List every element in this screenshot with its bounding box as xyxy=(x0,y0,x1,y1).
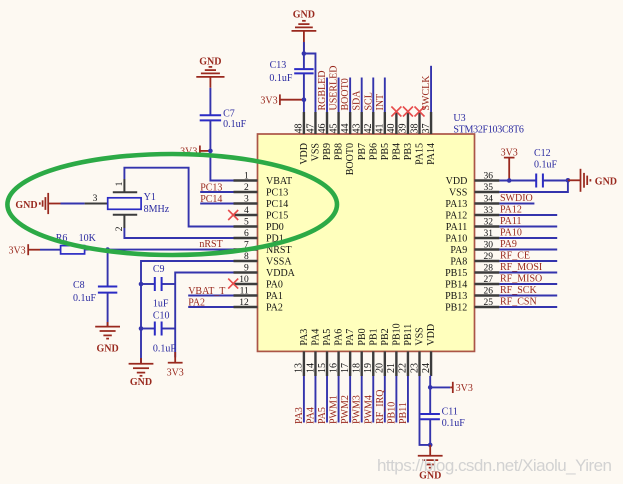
node pin24/3V3 junction xyxy=(428,385,433,390)
svg-text:3: 3 xyxy=(93,194,98,204)
svg-text:45: 45 xyxy=(328,124,339,134)
svg-text:GND: GND xyxy=(293,9,315,20)
svg-text:RF_MISO: RF_MISO xyxy=(500,274,542,285)
pin 25 PB12 (right) xyxy=(445,298,499,313)
node C10 left junction xyxy=(139,326,144,331)
svg-text:22: 22 xyxy=(398,363,409,373)
svg-text:BOOT0: BOOT0 xyxy=(345,143,356,175)
svg-text:PB13: PB13 xyxy=(445,291,467,302)
wire net PB10 (pin 21) xyxy=(395,376,397,423)
svg-text:10: 10 xyxy=(239,275,249,285)
svg-text:30: 30 xyxy=(484,241,494,251)
wire net PWM2 (pin 17) xyxy=(349,376,351,423)
wire pin 43 net SDA xyxy=(361,78,363,113)
svg-text:3V3: 3V3 xyxy=(8,245,25,256)
ground (top, VSS pin 47) xyxy=(292,9,317,53)
wire net VBAT_T (pin 11) xyxy=(188,295,233,297)
wire net SWDIO (pin 34) xyxy=(499,203,534,205)
svg-text:41: 41 xyxy=(375,124,386,134)
pin 9 VDDA (left) xyxy=(234,264,296,279)
pin 34 PA13 (right) xyxy=(445,195,499,210)
pin 41 PB5 (top) xyxy=(375,112,391,160)
wire node to pin 47 xyxy=(304,54,316,113)
wire net PA3 (pin 13) xyxy=(303,376,305,423)
svg-text:C7: C7 xyxy=(223,108,235,119)
svg-text:C9: C9 xyxy=(153,264,165,275)
svg-text:PC14: PC14 xyxy=(200,194,222,205)
wire net PA11 (pin 32) xyxy=(499,226,557,228)
wire pin 24 VDD down xyxy=(429,375,432,377)
svg-text:15: 15 xyxy=(317,363,328,373)
wire nRST node to pin 7 xyxy=(108,249,234,251)
svg-text:PWM3: PWM3 xyxy=(352,395,363,424)
pin 10 PA0 (left) xyxy=(234,275,283,290)
pin 18 PB0 (bottom) xyxy=(352,328,368,376)
wire C11 to GND node xyxy=(429,419,431,445)
svg-text:SWCLK: SWCLK xyxy=(421,75,432,111)
pin 46 PB9 (top) xyxy=(317,112,333,160)
wire net PC14 (pin 3) xyxy=(200,203,233,205)
svg-text:25: 25 xyxy=(484,298,494,308)
svg-text:39: 39 xyxy=(398,124,409,134)
svg-text:28: 28 xyxy=(484,264,494,274)
svg-text:PC14: PC14 xyxy=(266,199,288,210)
pin 38 PA15 (top) xyxy=(409,112,425,165)
svg-text:C8: C8 xyxy=(73,280,85,291)
capacitor C8 xyxy=(98,287,117,293)
no-connect X pin 4 xyxy=(228,210,238,220)
svg-text:RF_IRQ: RF_IRQ xyxy=(375,389,386,424)
svg-text:3: 3 xyxy=(244,195,249,205)
node 3V3/pin48 junction xyxy=(302,97,307,102)
wire 3V3 node to pin 48 xyxy=(303,100,305,112)
svg-text:PA9: PA9 xyxy=(500,239,517,250)
svg-text:6: 6 xyxy=(244,229,249,239)
svg-text:20: 20 xyxy=(375,363,386,373)
svg-text:PB7: PB7 xyxy=(357,143,368,160)
wire pin 42 net SCL xyxy=(372,78,374,113)
svg-text:nRST: nRST xyxy=(199,239,222,250)
wire C13 to 3V3 node xyxy=(303,73,305,99)
pin 44 BOOT0 (top) xyxy=(340,112,356,175)
pin 12 PA2 (left) xyxy=(234,298,283,313)
node VBAT junction xyxy=(208,149,213,154)
svg-text:PA2: PA2 xyxy=(188,297,205,308)
svg-text:23: 23 xyxy=(409,363,420,373)
capacitor C13 xyxy=(294,69,313,73)
svg-text:PWM1: PWM1 xyxy=(329,395,340,424)
svg-text:PA11: PA11 xyxy=(446,222,468,233)
svg-text:9: 9 xyxy=(244,264,249,274)
svg-text:PA11: PA11 xyxy=(500,216,522,227)
svg-text:PB2: PB2 xyxy=(380,328,391,345)
pin 35 VSS (right) xyxy=(449,183,499,198)
svg-text:38: 38 xyxy=(409,124,420,134)
svg-text:PD0: PD0 xyxy=(266,222,284,233)
svg-text:3V3: 3V3 xyxy=(167,368,184,379)
pin 21 PB10 (bottom) xyxy=(386,323,402,376)
svg-text:SDA: SDA xyxy=(352,90,363,111)
svg-text:C13: C13 xyxy=(270,60,287,71)
pin 7 NRST (left) xyxy=(234,241,292,256)
svg-text:PB12: PB12 xyxy=(445,302,467,313)
wire net PWM4 (pin 19) xyxy=(372,376,374,423)
svg-text:PB4: PB4 xyxy=(391,143,402,160)
svg-text:PC13: PC13 xyxy=(200,182,222,193)
svg-text:19: 19 xyxy=(363,363,374,373)
svg-text:26: 26 xyxy=(484,287,494,297)
svg-text:PA5: PA5 xyxy=(322,329,333,346)
svg-text:https://blog.csdn.net/Xiaolu_Y: https://blog.csdn.net/Xiaolu_Yiren xyxy=(377,456,612,475)
svg-text:10K: 10K xyxy=(79,233,97,244)
wire net PA12 (pin 33) xyxy=(499,214,557,216)
svg-text:4: 4 xyxy=(244,206,249,216)
svg-text:47: 47 xyxy=(305,124,316,134)
wire pin 35 VSS to node xyxy=(499,180,568,192)
power 3V3 (pin 48) xyxy=(260,94,304,106)
svg-text:VSSA: VSSA xyxy=(266,256,292,267)
svg-text:31: 31 xyxy=(484,229,494,239)
svg-text:VSS: VSS xyxy=(415,327,426,345)
wire net RF_IRQ (pin 20) xyxy=(384,376,386,423)
wire net RF_CSN (pin 25) xyxy=(499,306,557,308)
wire C7 to 3V3 node xyxy=(209,120,211,150)
svg-text:C11: C11 xyxy=(442,406,458,417)
svg-text:8: 8 xyxy=(244,252,249,262)
svg-text:40: 40 xyxy=(386,124,397,134)
capacitor C12 xyxy=(534,148,558,188)
svg-text:PWM4: PWM4 xyxy=(363,395,374,424)
pin 45 PB8 (top) xyxy=(328,112,344,160)
pin 16 PA6 (bottom) xyxy=(328,329,344,376)
ground (C8) xyxy=(95,322,120,354)
svg-text:PB1: PB1 xyxy=(368,328,379,345)
wire net PA2 (pin 12) xyxy=(188,306,233,308)
svg-text:33: 33 xyxy=(484,206,494,216)
svg-text:PB14: PB14 xyxy=(445,279,467,290)
capacitor C11 xyxy=(421,406,466,429)
svg-text:48: 48 xyxy=(294,124,305,134)
svg-text:VDDA: VDDA xyxy=(266,268,296,279)
svg-text:1: 1 xyxy=(115,181,125,186)
svg-text:3V3: 3V3 xyxy=(501,148,518,159)
svg-text:11: 11 xyxy=(240,287,249,297)
crystal Y1 8MHz xyxy=(85,179,170,231)
svg-text:24: 24 xyxy=(421,363,432,373)
pin 11 PA1 (left) xyxy=(234,287,283,302)
wire GND to crystal pin 3 xyxy=(61,203,85,205)
svg-text:PA15: PA15 xyxy=(415,143,426,165)
wire GND to node xyxy=(303,42,305,54)
svg-text:PB3: PB3 xyxy=(403,143,414,160)
pin 14 PA4 (bottom) xyxy=(305,329,321,376)
svg-text:12: 12 xyxy=(239,298,249,308)
pin 20 PB2 (bottom) xyxy=(375,328,391,376)
svg-text:44: 44 xyxy=(340,124,351,134)
pin 23 VSS (bottom) xyxy=(409,327,425,376)
ground (C9/C10) xyxy=(129,358,154,388)
svg-text:RF_CE: RF_CE xyxy=(500,251,530,262)
pin 31 PA10 (right) xyxy=(445,229,499,244)
pin 26 PB13 (right) xyxy=(445,287,499,302)
svg-text:0.1uF: 0.1uF xyxy=(153,343,177,354)
wire crystal pin1 to MCU pin 5 xyxy=(124,168,233,227)
svg-text:PB6: PB6 xyxy=(368,143,379,160)
svg-text:36: 36 xyxy=(484,172,494,182)
node junction pin47 branch xyxy=(302,51,307,56)
svg-text:RF_SCK: RF_SCK xyxy=(500,285,537,296)
wire node to C13 xyxy=(303,54,305,70)
pin 32 PA11 (right) xyxy=(446,218,500,233)
svg-text:USERLED: USERLED xyxy=(329,66,340,111)
svg-text:18: 18 xyxy=(352,363,363,373)
svg-text:0.1uF: 0.1uF xyxy=(269,73,293,84)
wire pin 41 net INT xyxy=(384,78,386,113)
wire crystal pin2 to MCU pin 6 xyxy=(124,228,233,238)
pin 39 PB3 (top) xyxy=(398,112,414,160)
svg-text:PA3: PA3 xyxy=(294,407,305,424)
svg-text:C12: C12 xyxy=(534,148,551,159)
svg-text:8MHz: 8MHz xyxy=(144,204,170,215)
svg-text:PWM2: PWM2 xyxy=(340,395,351,424)
node C11/VSS junction xyxy=(428,443,433,448)
svg-text:VDD: VDD xyxy=(299,143,310,165)
wire 3V3 to R6 xyxy=(40,249,61,251)
wire net PA10 (pin 31) xyxy=(499,237,557,239)
svg-text:43: 43 xyxy=(352,124,363,134)
node C12/VSS junction xyxy=(566,178,571,183)
power 3V3 (VDDA) xyxy=(167,352,184,379)
svg-text:PB11: PB11 xyxy=(403,324,414,346)
svg-text:PB0: PB0 xyxy=(357,328,368,345)
svg-text:0.1uF: 0.1uF xyxy=(73,293,97,304)
pin 5 PD0 (left) xyxy=(234,218,284,233)
resistor R6 10K xyxy=(56,233,97,254)
pin 40 PB4 (top) xyxy=(386,112,402,160)
node nRST junction xyxy=(105,247,110,252)
wire net PWM3 (pin 18) xyxy=(361,376,363,423)
wire net PC13 (pin 2) xyxy=(200,191,233,193)
svg-text:5: 5 xyxy=(244,218,249,228)
no-connect X pin 38 xyxy=(415,107,425,117)
svg-text:17: 17 xyxy=(340,363,351,373)
svg-text:PC13: PC13 xyxy=(266,187,288,198)
power 3V3 (pin 36) xyxy=(501,148,518,181)
svg-text:STM32F103C8T6: STM32F103C8T6 xyxy=(453,125,524,136)
pin 30 PA9 (right) xyxy=(450,241,499,256)
svg-text:PC15: PC15 xyxy=(266,210,288,221)
power 3V3 (pin 24) xyxy=(450,382,473,394)
svg-text:RF_CSN: RF_CSN xyxy=(500,297,537,308)
svg-text:VBAT: VBAT xyxy=(266,176,292,187)
wire R6 to nRST node xyxy=(85,249,108,251)
wire pin 44 net BOOT0 xyxy=(349,78,351,113)
pin 24 VDD (bottom) xyxy=(421,324,437,376)
svg-text:PA5: PA5 xyxy=(317,407,328,424)
power 3V3 (VBAT) xyxy=(180,146,210,158)
pin 17 PA7 (bottom) xyxy=(340,329,356,376)
pin 42 PB6 (top) xyxy=(363,112,379,160)
pin 29 PA8 (right) xyxy=(450,252,499,267)
wire pin 46 net RGBLED xyxy=(326,78,328,113)
wire pin 23 VSS to GND xyxy=(420,376,431,445)
wire net RF_CE (pin 29) xyxy=(499,260,557,262)
svg-text:34: 34 xyxy=(484,195,494,205)
svg-text:GND: GND xyxy=(15,200,37,211)
no-connect X pin 39 xyxy=(403,107,413,117)
green highlight ellipse (crystal circuit) xyxy=(7,154,337,255)
wire C8 to GND xyxy=(107,293,109,327)
svg-text:VSS: VSS xyxy=(449,187,467,198)
pin 8 VSSA (left) xyxy=(234,252,293,267)
wire pin 45 net USERLED xyxy=(338,78,340,113)
wire C12 to GND node xyxy=(543,180,568,182)
wire net RF_SCK (pin 26) xyxy=(499,295,557,297)
svg-text:1: 1 xyxy=(244,172,249,182)
capacitor C9 xyxy=(141,264,175,310)
svg-text:35: 35 xyxy=(484,183,494,193)
pin 37 PA14 (top) xyxy=(421,112,437,165)
svg-text:GND: GND xyxy=(595,176,617,187)
ground (crystal case) xyxy=(15,193,60,214)
svg-text:PA2: PA2 xyxy=(266,302,283,313)
wire net PA4 (pin 14) xyxy=(314,376,316,423)
wire 3V3 branch xyxy=(430,386,450,388)
svg-text:PA10: PA10 xyxy=(500,228,522,239)
pin 15 PA5 (bottom) xyxy=(317,329,333,376)
power 3V3 (nRST pullup) xyxy=(8,244,40,256)
wire VDDA rail (pin 9) xyxy=(175,273,233,358)
svg-text:RF_MOSI: RF_MOSI xyxy=(500,262,542,273)
svg-text:37: 37 xyxy=(421,124,432,134)
svg-text:14: 14 xyxy=(305,363,316,373)
svg-text:RGBLED: RGBLED xyxy=(317,71,328,111)
wire net PWM1 (pin 16) xyxy=(338,376,340,423)
wire node to C11 xyxy=(429,387,431,414)
pin 36 VDD (right) xyxy=(446,172,500,187)
wire net PB11 (pin 22) xyxy=(407,376,409,423)
ground (C12, right) xyxy=(568,169,617,192)
svg-text:PA12: PA12 xyxy=(445,210,467,221)
svg-text:PA14: PA14 xyxy=(426,143,437,165)
pin 43 PB7 (top) xyxy=(352,112,368,160)
pin 27 PB14 (right) xyxy=(445,275,499,290)
svg-text:GND: GND xyxy=(130,377,152,388)
svg-text:PA6: PA6 xyxy=(334,329,345,346)
svg-text:VDD: VDD xyxy=(446,176,468,187)
svg-text:PA10: PA10 xyxy=(445,233,467,244)
pin 4 PC15 (left) xyxy=(234,206,289,221)
ground (above C7) xyxy=(196,56,224,88)
svg-text:PA9: PA9 xyxy=(450,245,467,256)
node C9 left junction xyxy=(139,282,144,287)
MCU U3 body xyxy=(258,134,475,351)
svg-text:42: 42 xyxy=(363,124,374,134)
wire net PA5 (pin 15) xyxy=(326,376,328,423)
pin 47 VSS (top) xyxy=(305,112,321,161)
svg-text:0.1uF: 0.1uF xyxy=(534,159,558,170)
svg-text:PB10: PB10 xyxy=(391,323,402,345)
svg-text:PA3: PA3 xyxy=(299,329,310,346)
wire pin 37 net SWCLK xyxy=(430,66,432,112)
no-connect X pin 40 xyxy=(391,107,401,117)
svg-text:C10: C10 xyxy=(153,311,170,322)
pin 2 PC13 (left) xyxy=(234,183,289,198)
pin 48 VDD (top) xyxy=(294,112,310,165)
wire net RF_MISO (pin 27) xyxy=(499,283,557,285)
svg-text:1uF: 1uF xyxy=(153,299,169,310)
wire net RF_MOSI (pin 28) xyxy=(499,272,557,274)
svg-text:29: 29 xyxy=(484,252,494,262)
pin 13 PA3 (bottom) xyxy=(294,329,310,376)
svg-text:VBAT_T: VBAT_T xyxy=(188,286,225,297)
svg-text:21: 21 xyxy=(386,363,397,373)
svg-text:PB9: PB9 xyxy=(322,143,333,160)
no-connect X pin 10 xyxy=(228,279,238,289)
wire net PA9 (pin 30) xyxy=(499,249,557,251)
wire to pin 1 VBAT xyxy=(210,151,233,181)
svg-text:INT: INT xyxy=(375,94,386,111)
svg-text:2: 2 xyxy=(115,226,125,231)
svg-text:PA4: PA4 xyxy=(305,407,316,424)
svg-text:PA4: PA4 xyxy=(311,329,322,346)
node pin36/3V3 junction xyxy=(507,178,512,183)
svg-text:SWDIO: SWDIO xyxy=(500,193,533,204)
svg-text:27: 27 xyxy=(484,275,494,285)
pin 3 PC14 (left) xyxy=(234,195,289,210)
capacitor C10 xyxy=(141,311,176,355)
pin 1 VBAT (left) xyxy=(234,172,293,187)
svg-text:PB11: PB11 xyxy=(398,402,409,424)
svg-text:PA1: PA1 xyxy=(266,291,283,302)
svg-text:PB10: PB10 xyxy=(386,402,397,424)
svg-text:Y1: Y1 xyxy=(144,192,156,203)
svg-text:32: 32 xyxy=(484,218,494,228)
svg-text:0.1uF: 0.1uF xyxy=(223,119,247,130)
svg-text:PA12: PA12 xyxy=(500,205,522,216)
svg-text:GND: GND xyxy=(199,56,221,67)
svg-text:PA7: PA7 xyxy=(345,329,356,346)
svg-text:PB5: PB5 xyxy=(380,143,391,160)
wire GND to C7 xyxy=(209,88,211,116)
svg-text:VSS: VSS xyxy=(311,143,322,161)
svg-text:46: 46 xyxy=(317,124,328,134)
pin 28 PB15 (right) xyxy=(445,264,499,279)
svg-text:16: 16 xyxy=(328,363,339,373)
svg-text:SCL: SCL xyxy=(363,92,374,110)
svg-text:U3: U3 xyxy=(453,113,465,124)
svg-text:PA8: PA8 xyxy=(450,256,467,267)
svg-text:PB15: PB15 xyxy=(445,268,467,279)
pin 19 PB1 (bottom) xyxy=(363,328,379,376)
wire node to C8 xyxy=(107,250,109,287)
wire pin 36 VDD to C12 xyxy=(499,180,536,182)
svg-text:2: 2 xyxy=(244,183,249,193)
svg-text:0.1uF: 0.1uF xyxy=(442,418,466,429)
ground (C11) xyxy=(418,445,443,482)
svg-text:PA13: PA13 xyxy=(445,199,467,210)
svg-text:3V3: 3V3 xyxy=(456,383,473,394)
pin 22 PB11 (bottom) xyxy=(398,324,414,376)
svg-text:13: 13 xyxy=(294,363,305,373)
pin 6 PD1 (left) xyxy=(234,229,284,244)
svg-text:PB8: PB8 xyxy=(334,143,345,160)
pin 33 PA12 (right) xyxy=(445,206,499,221)
svg-text:GND: GND xyxy=(96,343,118,354)
svg-text:PA0: PA0 xyxy=(266,279,283,290)
capacitor C7 xyxy=(200,115,221,120)
svg-text:BOOT0: BOOT0 xyxy=(340,78,351,110)
